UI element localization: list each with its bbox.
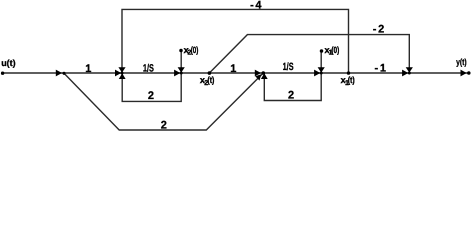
arrowhead: outer gain-2 diagonal pointing up-right into second summing node <box>255 74 261 80</box>
svg-text:(0): (0) <box>191 45 199 55</box>
arrowhead: x1(0) stub pointing down into node <box>318 67 325 72</box>
svg-text:2: 2 <box>161 120 167 132</box>
node: x1(0) initial condition dot <box>320 49 324 53</box>
node: second integrator output <box>320 72 323 75</box>
svg-text:1: 1 <box>380 63 386 75</box>
arrowhead: into first integrator output node <box>174 70 180 77</box>
node: output summing junction <box>408 72 411 75</box>
wire: outer gain-2 path from input branch down, across, up to second summing node <box>64 73 263 130</box>
wire: gain-2 inner feedback loop around second integrator <box>264 73 321 101</box>
svg-text:1: 1 <box>230 63 236 75</box>
svg-text:4: 4 <box>255 0 262 12</box>
arrowhead: -2 path pointing down into output summing node <box>406 67 413 72</box>
node: x1(t) pick-off point <box>347 71 350 74</box>
node: branch point after input arrow <box>62 72 65 75</box>
arrowhead: into output summing node from left <box>402 70 408 77</box>
arrowhead: x2(0) stub pointing down into node <box>178 67 185 72</box>
node: output terminal y(t) <box>467 71 471 75</box>
svg-text:2: 2 <box>288 90 294 102</box>
svg-text:y(t): y(t) <box>456 57 467 67</box>
wire: -4 feedback loop from x1(t) up across and down to first summing node <box>122 9 349 73</box>
svg-text:(t): (t) <box>207 75 214 85</box>
node: first summing junction <box>121 72 124 75</box>
wire: x2(0) initial condition stub <box>180 51 182 74</box>
node: x2(t) pick-off point <box>208 71 212 75</box>
svg-text:(t): (t) <box>348 75 355 85</box>
node: second summing junction <box>262 71 266 75</box>
arrowhead: into second summing node from left <box>255 70 261 77</box>
svg-text:-: - <box>250 0 254 12</box>
svg-text:u(t): u(t) <box>1 58 16 68</box>
arrowhead: inner loop pointing up into second summing node <box>261 73 268 79</box>
node: input terminal u(t) <box>1 72 4 75</box>
svg-text:-: - <box>373 24 377 36</box>
wire: gain-2 inner feedback loop around first integrator <box>122 73 181 101</box>
svg-text:1/S: 1/S <box>143 62 154 74</box>
arrowhead: into first summing node from left <box>115 70 121 77</box>
svg-text:2: 2 <box>378 24 384 36</box>
arrowhead: output arrow before y(t) <box>461 70 467 77</box>
arrowhead: inner loop pointing up into first summing node <box>119 73 126 79</box>
wire: -2 feedforward path from x2(t) diagonal up, across, down into output node <box>209 35 409 73</box>
node: x2(0) initial condition dot <box>179 49 183 53</box>
arrowhead: -4 loop pointing down into first summing node <box>118 67 125 72</box>
wire: main signal line from u(t) to y(t) <box>4 72 469 74</box>
svg-text:1/S: 1/S <box>283 61 294 73</box>
wire: x1(0) initial condition stub <box>320 51 322 73</box>
node: first integrator output <box>180 72 183 75</box>
svg-text:1: 1 <box>85 63 91 75</box>
arrowhead: into second integrator output node <box>314 70 320 77</box>
arrowhead: input branch arrow <box>56 70 62 77</box>
svg-text:-: - <box>375 63 379 75</box>
svg-text:2: 2 <box>148 90 154 102</box>
svg-text:(0): (0) <box>331 45 339 55</box>
